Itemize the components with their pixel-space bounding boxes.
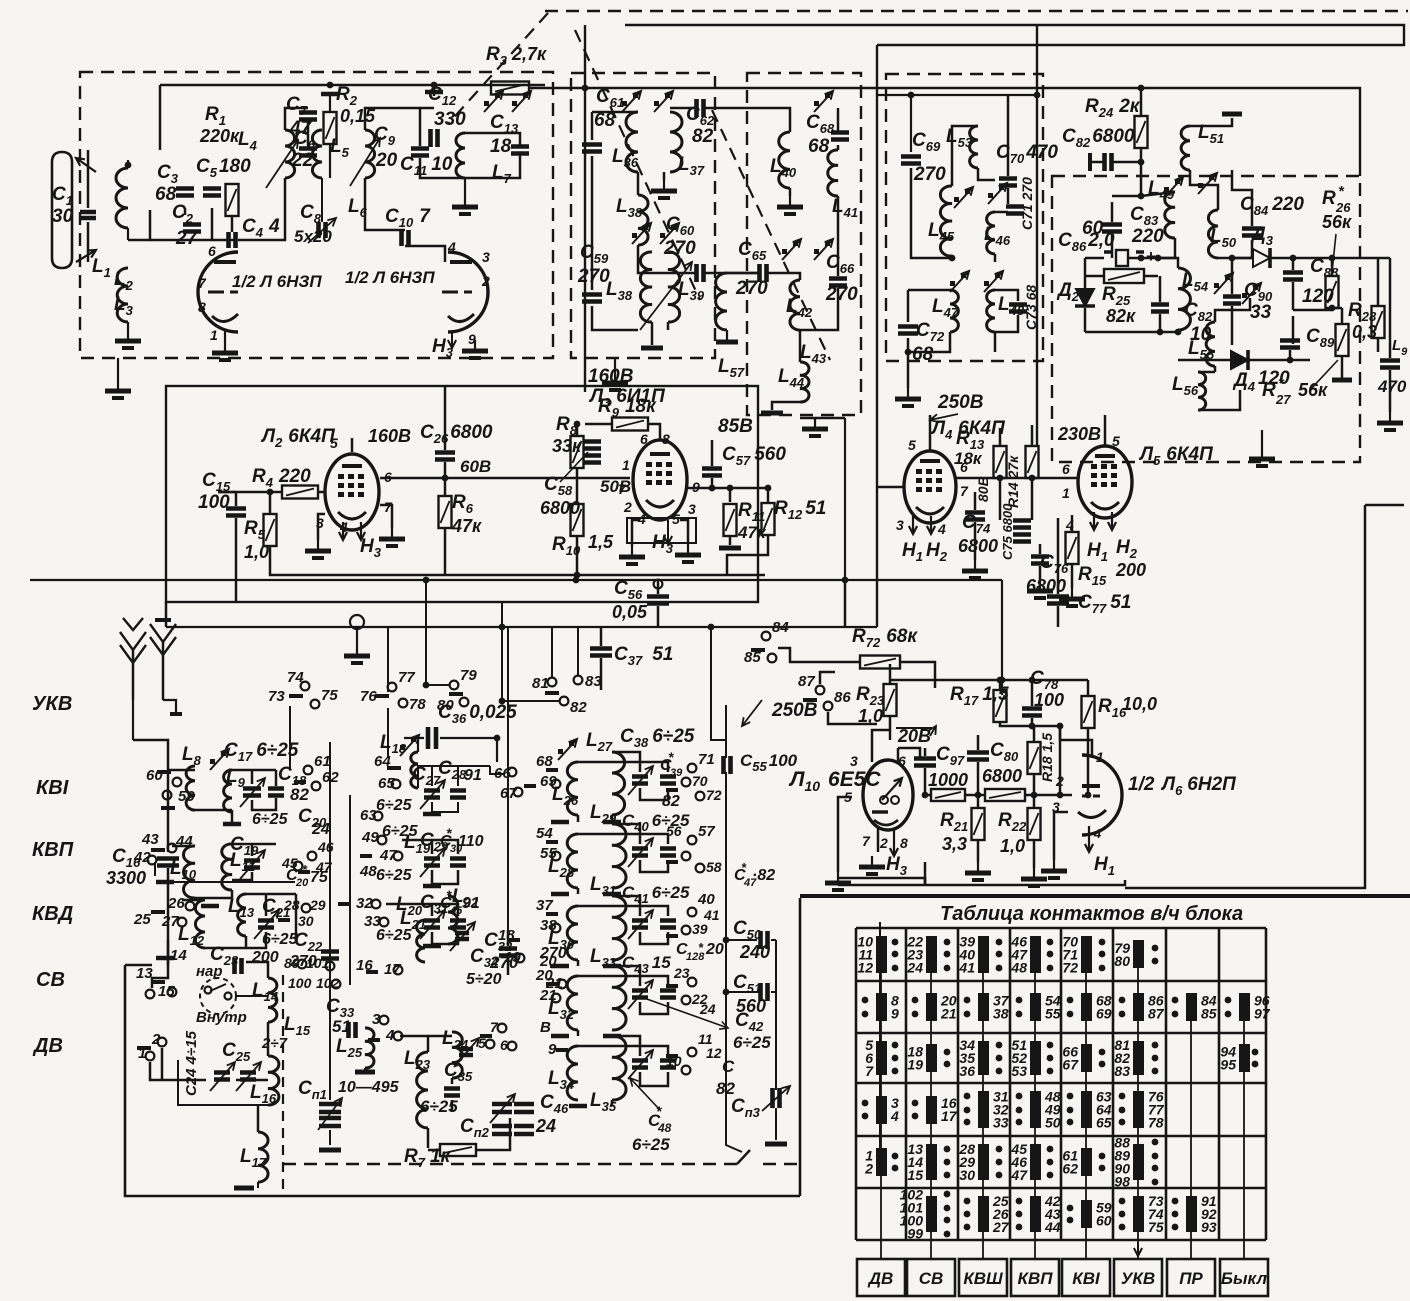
ground L17 xyxy=(234,1186,254,1191)
wires KV3 xyxy=(182,899,205,902)
coil L31 xyxy=(612,896,626,960)
svg-text:Л26К4П: Л26К4П xyxy=(260,426,335,450)
svg-text:C5180: C5180 xyxy=(196,156,251,180)
wires kv1 osc xyxy=(402,839,432,842)
antenna AM symbol xyxy=(162,640,165,700)
cathode box L3 xyxy=(627,518,696,543)
coil L11 xyxy=(222,844,232,890)
svg-text:82: 82 xyxy=(662,793,680,810)
switch arrows detector top xyxy=(1164,187,1169,192)
coil L56 xyxy=(1198,372,1206,410)
wires kv2 osc xyxy=(386,903,432,906)
contact 11 xyxy=(688,1048,697,1057)
capacitor C47 82 xyxy=(660,849,676,856)
wire left frame drop xyxy=(165,602,168,627)
wire bus drop to C78 node xyxy=(1001,580,1003,695)
coil L49 xyxy=(1165,192,1175,238)
ground KV2 xyxy=(156,880,174,885)
svg-text:80В: 80В xyxy=(975,476,991,502)
svg-text:Быкл: Быкл xyxy=(1221,1269,1268,1288)
svg-text:68: 68 xyxy=(808,136,830,157)
svg-text:С75 6800: С75 6800 xyxy=(1000,503,1015,560)
coil L6 osc xyxy=(365,130,375,178)
svg-text:83: 83 xyxy=(585,673,602,690)
svg-text:1/2 Л 6НЗП: 1/2 Л 6НЗП xyxy=(345,268,435,287)
wires row3 kpe xyxy=(578,905,612,908)
svg-text:ПР: ПР xyxy=(1179,1269,1203,1288)
coil L41 xyxy=(828,150,838,196)
contact table column stems xyxy=(880,950,882,1259)
coil L21 xyxy=(417,920,425,962)
contact 71 xyxy=(688,764,697,773)
svg-text:39: 39 xyxy=(692,921,708,937)
contact 87 xyxy=(816,686,825,695)
switch arrows IF1 xyxy=(622,101,627,106)
coil L32 xyxy=(567,976,578,1030)
svg-text:6÷25: 6÷25 xyxy=(376,927,413,944)
wire vertical feed x585 xyxy=(584,25,586,392)
svg-text:25: 25 xyxy=(133,911,151,928)
svg-text:12: 12 xyxy=(706,1045,722,1061)
svg-text:44: 44 xyxy=(1044,1219,1061,1235)
svg-text:1,5: 1,5 xyxy=(588,532,614,552)
contact 75 xyxy=(311,700,320,709)
tube L2 6K4P xyxy=(325,454,379,530)
svg-text:10,0: 10,0 xyxy=(1122,694,1157,714)
wires DV xyxy=(150,1062,162,1080)
wires IF2 bottom xyxy=(727,272,760,275)
coil L26 xyxy=(567,762,578,815)
svg-text:99: 99 xyxy=(907,1226,923,1242)
arrow into UKV button xyxy=(1137,1242,1139,1256)
wires UKV input mesh xyxy=(150,239,235,242)
svg-text:82к: 82к xyxy=(1106,306,1136,326)
svg-text:УКВ: УКВ xyxy=(32,693,72,715)
ground L3 xyxy=(127,330,129,340)
svg-text:3: 3 xyxy=(896,517,904,533)
trimmer C48 xyxy=(632,1061,648,1068)
svg-text:5: 5 xyxy=(908,437,916,453)
capacitor C80 6800 xyxy=(967,753,989,760)
wire top dashed bus xyxy=(545,10,1408,12)
svg-text:79: 79 xyxy=(460,667,477,684)
svg-text:C57560: C57560 xyxy=(722,444,786,468)
svg-text:6: 6 xyxy=(208,243,216,259)
svg-text:6: 6 xyxy=(640,431,648,447)
contact 62 xyxy=(312,782,321,791)
svg-text:250В: 250В xyxy=(937,392,984,413)
svg-text:1: 1 xyxy=(1062,485,1070,501)
wire 73 stem xyxy=(289,706,291,770)
wires 87 area xyxy=(820,672,835,684)
wire L4 grid xyxy=(877,486,904,489)
svg-text:27: 27 xyxy=(992,1219,1010,1235)
svg-text:6÷25: 6÷25 xyxy=(733,1033,771,1052)
svg-text:110: 110 xyxy=(458,833,484,850)
svg-text:СВ: СВ xyxy=(919,1269,944,1288)
svg-text:56к: 56к xyxy=(1322,212,1352,232)
grounds L3 xyxy=(632,520,640,546)
svg-text:56к: 56к xyxy=(1298,380,1328,400)
svg-text:48: 48 xyxy=(359,863,377,880)
svg-text:85В: 85В xyxy=(718,416,753,437)
coil L38 xyxy=(640,252,652,322)
svg-text:14: 14 xyxy=(170,947,187,964)
resistor R7 1k xyxy=(440,1144,476,1156)
wire 79 drop xyxy=(426,580,449,685)
svg-text:74: 74 xyxy=(287,669,304,686)
svg-text:КВШ: КВШ xyxy=(963,1269,1003,1288)
svg-text:R: R xyxy=(1322,188,1336,209)
svg-text:220к: 220к xyxy=(199,126,240,146)
triode half 1/2 L 6N3P second xyxy=(448,252,488,332)
coil L5 xyxy=(312,130,322,178)
svg-text:53: 53 xyxy=(1011,1063,1027,1079)
svg-text:4: 4 xyxy=(890,1108,899,1124)
coil L24 xyxy=(452,1032,462,1078)
wire AGC bus y580 xyxy=(30,579,1002,581)
wires IF2 top xyxy=(789,125,792,132)
svg-text:19: 19 xyxy=(504,949,521,966)
svg-text:17: 17 xyxy=(941,1108,958,1124)
wires row4 kpe xyxy=(578,975,612,978)
wires detector top xyxy=(1141,192,1175,196)
switch arrows block3 upper xyxy=(954,197,959,202)
svg-text:3: 3 xyxy=(482,249,490,265)
svg-text:77: 77 xyxy=(398,669,415,686)
svg-text:4: 4 xyxy=(1093,826,1102,841)
svg-text:18к: 18к xyxy=(954,449,983,468)
svg-text:27: 27 xyxy=(1275,392,1291,407)
switch arrow L27 xyxy=(558,749,563,754)
contact 61 xyxy=(304,766,313,775)
dashed mech link vertical xyxy=(282,975,284,1190)
svg-text:12: 12 xyxy=(857,960,873,976)
coil L50 xyxy=(1208,210,1218,258)
svg-text:1: 1 xyxy=(210,327,218,343)
coil L12 xyxy=(195,900,205,948)
svg-text:47к: 47к xyxy=(451,516,482,536)
svg-text:5: 5 xyxy=(1112,433,1120,449)
contact 82 xyxy=(560,697,569,706)
ground KV3 xyxy=(156,956,174,961)
switch arrow IF2 top xyxy=(814,101,819,106)
svg-text:68: 68 xyxy=(912,344,934,365)
wire plate return x845 xyxy=(844,418,846,580)
band buttons xyxy=(857,1259,905,1296)
svg-text:82: 82 xyxy=(290,785,309,804)
capacitor C74 6800 xyxy=(965,513,985,520)
contact 74 xyxy=(301,682,310,691)
coil L8 xyxy=(186,766,195,810)
coil L13 xyxy=(238,894,246,936)
svg-text:48: 48 xyxy=(1010,960,1027,976)
svg-text:80: 80 xyxy=(1114,953,1130,969)
svg-text:2: 2 xyxy=(864,1161,873,1177)
svg-text:250В: 250В xyxy=(771,700,818,721)
svg-text:83: 83 xyxy=(1114,1063,1130,1079)
capacitor C71 270 xyxy=(1006,207,1024,214)
svg-text:230В: 230В xyxy=(1057,424,1101,444)
ground block3 xyxy=(907,388,909,398)
svg-text:100: 100 xyxy=(198,492,230,513)
switch arrow L54 xyxy=(1214,283,1219,288)
svg-text:13: 13 xyxy=(136,965,153,982)
wire AGC top rail xyxy=(890,679,1088,682)
svg-text:270: 270 xyxy=(663,238,696,259)
svg-text:76: 76 xyxy=(360,688,377,705)
svg-text:30: 30 xyxy=(52,206,74,227)
ground below UKV enclosure xyxy=(117,358,119,380)
grounds L2 xyxy=(318,514,325,540)
IF transformer block 3 dashed box xyxy=(886,74,1043,361)
svg-text:81: 81 xyxy=(532,675,549,692)
svg-text:СВ: СВ xyxy=(36,969,65,991)
svg-text:6800: 6800 xyxy=(540,498,580,518)
coil L7 contour xyxy=(456,133,465,178)
resistor R19 grid xyxy=(931,789,965,801)
tuning arrow L4 L5 xyxy=(266,140,298,188)
wire L2 anode to L3 grid xyxy=(380,477,630,480)
detector dashed enclosure xyxy=(1052,176,1360,462)
svg-text:22: 22 xyxy=(291,150,314,171)
switch nar/vnutr dashed circle xyxy=(200,978,236,1014)
svg-text:50: 50 xyxy=(1045,1115,1061,1131)
svg-text:24: 24 xyxy=(699,1001,716,1017)
coil L1 upper xyxy=(127,160,129,168)
wire 81 stem xyxy=(551,627,553,677)
wires SV xyxy=(236,995,268,997)
contact 78 xyxy=(399,699,408,708)
wires row2 kpe xyxy=(578,833,612,836)
capacitor C128 20 xyxy=(660,921,676,928)
svg-text:40: 40 xyxy=(697,891,715,908)
svg-text:60: 60 xyxy=(146,767,163,784)
svg-text:6÷25: 6÷25 xyxy=(376,797,413,814)
coil L45 xyxy=(940,186,952,256)
svg-text:98: 98 xyxy=(1114,1174,1130,1190)
wires IF1 bottom xyxy=(592,306,638,330)
svg-text:73: 73 xyxy=(268,688,285,705)
svg-text:26: 26 xyxy=(167,895,185,912)
svg-text:1: 1 xyxy=(138,1045,146,1062)
svg-text:72: 72 xyxy=(706,787,722,803)
wire kpe row verticals xyxy=(507,627,509,944)
heater arrows L4 xyxy=(912,516,914,534)
switch arrows block3 lower xyxy=(950,281,955,286)
wire antenna to L1 xyxy=(87,170,90,208)
svg-text:82: 82 xyxy=(570,699,587,716)
svg-text:C386÷25: C386÷25 xyxy=(620,726,695,750)
svg-text:Л106Е5С: Л106Е5С xyxy=(788,768,881,794)
svg-text:45: 45 xyxy=(281,855,298,871)
svg-text:7: 7 xyxy=(198,275,207,291)
trimmer C17 xyxy=(243,789,261,796)
svg-text:54: 54 xyxy=(536,825,553,842)
contact 45 xyxy=(294,862,303,871)
svg-text:КВД: КВД xyxy=(32,903,73,925)
coil L28 xyxy=(567,834,578,888)
coil L35 xyxy=(612,1036,626,1100)
coil L46 xyxy=(987,212,995,254)
svg-text:18: 18 xyxy=(490,136,512,157)
svg-text:24: 24 xyxy=(906,960,923,976)
svg-text:38: 38 xyxy=(993,1006,1009,1022)
svg-text:30: 30 xyxy=(959,1167,975,1183)
wires L6 xyxy=(1060,726,1092,755)
coil L34 xyxy=(567,1046,578,1100)
svg-text:78: 78 xyxy=(409,696,426,713)
svg-text:C70470: C70470 xyxy=(996,142,1058,166)
svg-text:20: 20 xyxy=(705,941,724,958)
svg-text:63: 63 xyxy=(360,807,377,824)
wire KV2 rail xyxy=(165,881,295,883)
svg-text:61: 61 xyxy=(314,753,331,770)
wire L51 anode xyxy=(1190,118,1232,126)
svg-text:78: 78 xyxy=(1148,1115,1164,1131)
svg-text:C266800: C266800 xyxy=(420,422,493,446)
svg-text:65: 65 xyxy=(1096,1115,1112,1131)
svg-text:C84220: C84220 xyxy=(1240,194,1304,218)
wire diagonal switch linkage 1 xyxy=(448,13,548,124)
wire B+ bus from R3 xyxy=(528,88,1360,176)
contact 72 xyxy=(696,792,705,801)
resistor R15 200 xyxy=(1066,532,1079,564)
heater arrows L5 xyxy=(1093,512,1095,530)
coil L25 xyxy=(365,1028,374,1068)
svg-text:9: 9 xyxy=(891,1006,899,1022)
resistor R16 10,0 xyxy=(1082,696,1095,728)
svg-text:6800: 6800 xyxy=(958,536,998,556)
svg-text:7: 7 xyxy=(960,483,969,499)
coil L42 xyxy=(790,280,800,330)
contact 10 xyxy=(682,1066,691,1075)
svg-text:УКВ: УКВ xyxy=(1121,1269,1155,1288)
svg-text:50В: 50В xyxy=(600,477,631,496)
svg-text:6÷25: 6÷25 xyxy=(376,867,413,884)
trimmer C38 xyxy=(632,777,648,784)
coil L40 xyxy=(779,132,790,188)
svg-text:2: 2 xyxy=(623,499,632,515)
svg-text:C826800: C826800 xyxy=(1062,126,1135,150)
svg-text:С73 68: С73 68 xyxy=(1023,285,1039,330)
coil L54 xyxy=(1178,268,1190,330)
svg-text:КВI: КВI xyxy=(1072,1269,1101,1288)
svg-text:24: 24 xyxy=(311,821,330,838)
svg-text:270: 270 xyxy=(735,278,768,299)
svg-text:4: 4 xyxy=(937,521,946,537)
svg-text:4: 4 xyxy=(447,239,456,255)
ground L57 xyxy=(716,340,738,345)
svg-text:30: 30 xyxy=(298,913,314,929)
svg-text:20: 20 xyxy=(535,967,553,984)
wire bus y627 xyxy=(166,626,877,628)
svg-text:15: 15 xyxy=(907,1167,923,1183)
svg-text:C176÷25: C176÷25 xyxy=(224,740,299,764)
svg-text:60В: 60В xyxy=(460,457,491,476)
capacitor C46 24 xyxy=(514,1104,534,1112)
contact 39 xyxy=(682,926,691,935)
coil L27 xyxy=(612,752,625,815)
capacitor C91 470 right xyxy=(1380,361,1400,368)
svg-text:3: 3 xyxy=(850,753,858,769)
coil L38p xyxy=(638,195,648,245)
svg-text:8: 8 xyxy=(900,835,908,851)
coil L39 xyxy=(668,252,680,322)
svg-text:41: 41 xyxy=(958,960,975,976)
svg-text:68: 68 xyxy=(536,753,553,770)
resistor R20 grid xyxy=(985,789,1025,801)
svg-text:75: 75 xyxy=(1148,1219,1164,1235)
coil L4 contour xyxy=(285,130,295,178)
wire L3 pin9 rail xyxy=(687,487,765,490)
svg-text:Л66Н2П: Л66Н2П xyxy=(1160,774,1236,798)
ground L40 xyxy=(789,196,791,206)
wire L4 anode xyxy=(956,477,1078,480)
wire contact bus right vertical 2 xyxy=(349,795,351,985)
wires block3 mid xyxy=(911,168,952,258)
svg-text:КВП: КВП xyxy=(32,839,74,861)
wires L55 L56 xyxy=(1215,298,1250,322)
svg-text:С24 4÷15: С24 4÷15 xyxy=(183,1030,200,1096)
ground detector bottom xyxy=(1261,430,1263,448)
coil L14 xyxy=(268,978,277,1022)
wire AF bottom rail xyxy=(838,880,1125,885)
oscillator block dashed bottom xyxy=(283,1163,737,1165)
svg-text:0,05: 0,05 xyxy=(612,602,648,622)
wire diagonal switch linkage 3 xyxy=(712,110,830,360)
antenna dipole C1 xyxy=(52,152,72,268)
svg-text:19: 19 xyxy=(907,1057,923,1073)
wire B+ through block3 xyxy=(877,94,1037,96)
wires KV2 xyxy=(172,845,195,848)
trimmer C34 xyxy=(455,933,469,939)
ground second triode xyxy=(474,340,476,350)
svg-text:R14 27к: R14 27к xyxy=(1005,455,1021,508)
svg-text:160В: 160В xyxy=(588,366,634,387)
contact 79 xyxy=(450,681,459,690)
wire contact bus right vertical xyxy=(329,742,331,996)
svg-text:6÷25: 6÷25 xyxy=(252,811,289,828)
svg-text:КВП: КВП xyxy=(1018,1269,1054,1288)
coil L47 xyxy=(950,290,958,332)
svg-text:55: 55 xyxy=(1045,1006,1061,1022)
resistor R18 1,5 xyxy=(1028,742,1041,774)
coil L16 xyxy=(268,1056,279,1105)
stage enclosure around L2 L3 xyxy=(166,386,758,602)
wire L1 to C3 node xyxy=(128,210,150,240)
svg-text:1,0: 1,0 xyxy=(1000,836,1025,856)
svg-text:37: 37 xyxy=(536,897,553,914)
svg-text:82: 82 xyxy=(692,126,714,147)
coil L51 xyxy=(1181,126,1190,170)
wires row5 kpe xyxy=(578,1045,612,1048)
capacitor C44 82 xyxy=(660,1061,676,1068)
IF transformer block 1 dashed box xyxy=(571,73,715,358)
svg-text:1,0: 1,0 xyxy=(858,706,883,726)
wires block3 bottom xyxy=(907,290,910,322)
svg-text:69: 69 xyxy=(1096,1006,1112,1022)
svg-text:2,7к: 2,7к xyxy=(511,44,547,64)
ground at IF box2 output xyxy=(800,417,845,420)
contact 67 xyxy=(514,788,523,797)
svg-text:2: 2 xyxy=(879,835,888,851)
triode half 1/2 L 6N3P first xyxy=(198,252,238,332)
svg-text:1000: 1000 xyxy=(928,770,968,790)
svg-text:58: 58 xyxy=(706,859,722,875)
svg-text:20: 20 xyxy=(375,150,398,171)
tube L3 6I1P heptode xyxy=(633,440,687,520)
